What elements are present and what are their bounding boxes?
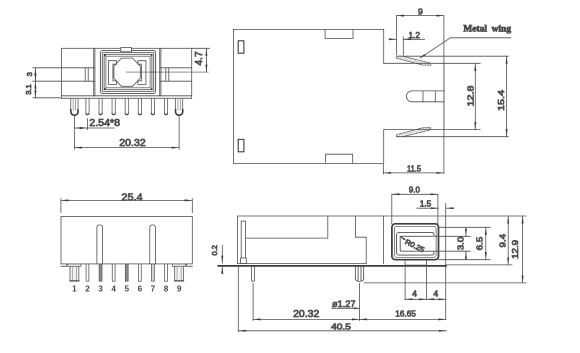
side view bottom edge [238, 263, 367, 265]
svg-text:9: 9 [418, 6, 423, 16]
slot pin7 [150, 225, 156, 264]
svg-text:5: 5 [124, 285, 129, 294]
svg-text:4: 4 [111, 285, 116, 294]
wing tip line top [397, 55, 509, 57]
corner mark TL [104, 55, 106, 57]
dimension 16.65 [360, 318, 447, 320]
dimension 15.4 [506, 56, 508, 137]
receptacle block inner [394, 226, 436, 257]
side view top edge + extension [238, 215, 527, 217]
internal step [356, 216, 367, 264]
svg-text:12.8: 12.8 [465, 85, 475, 106]
receptacle block outer [392, 224, 439, 260]
svg-text:16.65: 16.65 [395, 309, 416, 319]
top view outline [233, 29, 444, 163]
svg-text:9: 9 [177, 285, 182, 294]
front view body [62, 48, 192, 96]
pin 3 (bottom view) [99, 264, 102, 281]
cage left edge [93, 48, 95, 96]
svg-text:9.0: 9.0 [409, 184, 420, 194]
corner mark TR [151, 55, 153, 57]
corner mark BL [104, 88, 106, 90]
pin 9 (bottom view) [173, 264, 186, 266]
side view front pin [355, 267, 363, 282]
svg-text:3: 3 [25, 72, 34, 76]
flange top notch [121, 48, 132, 52]
svg-text:0.2: 0.2 [210, 245, 219, 256]
side slot [241, 221, 245, 258]
extension line 12.9 bottom [364, 282, 526, 284]
cage right edge [159, 48, 161, 96]
dimension 25.4 [60, 199, 62, 213]
mount slot upper [238, 41, 244, 53]
R0.25 label [400, 236, 406, 240]
svg-text:1: 1 [72, 285, 77, 294]
dimension 9.4 [507, 216, 509, 265]
right face line [445, 204, 447, 320]
ferrule [406, 91, 443, 102]
corner mark BR [151, 88, 153, 90]
pin 7 (bottom view) [152, 264, 155, 281]
svg-text:4.7: 4.7 [194, 51, 205, 65]
left bracket [109, 61, 117, 85]
dimension 9 [395, 16, 397, 55]
svg-text:3: 3 [98, 285, 103, 294]
side latch lines left [33, 67, 94, 69]
dimension 12.9 [522, 216, 524, 283]
svg-text:3.0: 3.0 [456, 236, 466, 250]
side view rear pin [252, 267, 255, 281]
pin 5 (front view) [125, 98, 128, 113]
svg-text:12.9: 12.9 [510, 240, 520, 259]
pin 6 (front view) [138, 98, 141, 113]
pin 8 (front view) [164, 98, 167, 113]
pin 9 (front view) [176, 98, 183, 112]
extension lines 3.0 [434, 235, 470, 237]
pin 4 (front view) [112, 98, 115, 113]
svg-text:3.1: 3.1 [24, 84, 33, 95]
dimension 3.0 [465, 228, 467, 236]
snout edge extension bottom [444, 129, 480, 131]
dimension 3 / 3.1 extension bottom [33, 97, 62, 99]
inner frame thin [106, 56, 150, 88]
rear boundary [383, 216, 385, 264]
pin 8 (bottom view) [165, 264, 168, 281]
extension lines 6.5 [439, 226, 491, 228]
pin 3 (front view) [99, 98, 102, 113]
side view left edge [236, 216, 238, 264]
mount slot lower [238, 139, 244, 151]
svg-text:9.4: 9.4 [497, 234, 507, 248]
right bracket [138, 61, 146, 85]
dimension 9.0 [391, 194, 393, 224]
pin numbers [72, 285, 182, 294]
svg-text:6: 6 [138, 285, 143, 294]
pcb line thick [218, 265, 446, 267]
dimension 20.32 (side) [253, 318, 359, 320]
dimension 4 4 [404, 268, 406, 300]
wing tip line bottom [397, 136, 509, 138]
centerline [126, 71, 209, 73]
top tab [325, 29, 353, 38]
svg-text:25.4: 25.4 [121, 192, 143, 203]
metal wing bottom [397, 128, 431, 137]
dimension 1.5 [417, 207, 438, 209]
internal shelf [246, 216, 328, 238]
extension line 9.4 bottom [446, 264, 512, 266]
bottom notch left [61, 264, 67, 266]
dimension 40.5 [237, 267, 239, 332]
slot pin3 [97, 225, 103, 264]
svg-text:1.2: 1.2 [408, 30, 420, 40]
pin 5 (bottom view) [125, 264, 128, 281]
side slot foot [241, 258, 247, 264]
pin 6 (bottom view) [138, 264, 141, 281]
extension pin centers [252, 284, 254, 321]
pin 4 (bottom view) [112, 264, 115, 281]
dimension 11.5 [382, 165, 384, 175]
dimension 2.54*8 [73, 115, 75, 130]
svg-text:R0.25: R0.25 [404, 237, 426, 254]
svg-text:15.4: 15.4 [496, 90, 506, 111]
receptacle foot [405, 260, 426, 265]
lens octagon [114, 58, 140, 86]
svg-text:Metal wing: Metal wing [463, 25, 511, 35]
dimension 12.8 [474, 63, 476, 129]
bottom view pins [68, 264, 186, 281]
port cavity C profile [397, 232, 434, 255]
snout edge extension top [444, 62, 480, 64]
pin 1 (front view) [71, 98, 183, 115]
svg-text:20.32: 20.32 [293, 309, 320, 320]
svg-text:20.32: 20.32 [119, 138, 146, 149]
bottom notch right [187, 264, 193, 266]
pin 1 (bottom view) [68, 264, 81, 266]
metal wing leader [421, 38, 511, 58]
svg-text:6.5: 6.5 [475, 236, 485, 250]
svg-text:7: 7 [151, 285, 156, 294]
dimension 3 [34, 68, 36, 81]
pin 2 (front view) [86, 98, 89, 113]
dimension 20.32 (front) [73, 131, 75, 149]
pin 7 (front view) [151, 98, 154, 113]
svg-text:2.54*8: 2.54*8 [89, 118, 120, 129]
svg-text:4: 4 [433, 289, 438, 299]
bottom view body [61, 216, 192, 264]
front view bottom lip [62, 96, 192, 99]
svg-text:11.5: 11.5 [407, 163, 421, 173]
inner frame thick [104, 54, 152, 89]
svg-text:8: 8 [164, 285, 169, 294]
flange outer frame [100, 51, 155, 94]
svg-text:2: 2 [85, 285, 90, 294]
dimension 4.7 [192, 47, 210, 49]
svg-text:4: 4 [412, 289, 417, 299]
bottom tab [326, 154, 353, 163]
svg-text:1.5: 1.5 [420, 198, 432, 208]
dimension 6.5 [485, 227, 487, 259]
metal wing top [397, 56, 431, 65]
svg-text:40.5: 40.5 [331, 321, 351, 331]
dimension 1.2 [402, 37, 404, 55]
dimension 3.1 [34, 81, 36, 98]
side latch lines right [160, 67, 192, 69]
pin 2 (bottom view) [86, 264, 89, 281]
dimension 0.2 [221, 246, 223, 264]
